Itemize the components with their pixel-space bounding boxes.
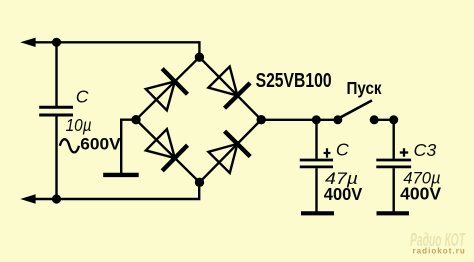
wire: top rail to bridge xyxy=(57,42,200,57)
svg-text:C3: C3 xyxy=(414,140,437,160)
diode D1 (left to top) xyxy=(144,69,188,113)
wire: switch to capacitor C3 xyxy=(374,119,394,121)
polarity + (C2) xyxy=(324,148,331,157)
switch SA1 Пуск xyxy=(333,100,378,124)
node: bridge bottom xyxy=(195,178,204,187)
wire: bottom rail to bridge xyxy=(57,182,200,199)
node: bridge right xyxy=(257,115,266,124)
svg-text:C: C xyxy=(76,87,89,107)
node: capacitor C3 top junction xyxy=(389,115,398,124)
svg-text:400V: 400V xyxy=(324,184,363,204)
svg-text:radiokot.ru: radiokot.ru xyxy=(413,247,466,256)
svg-text:10µ: 10µ xyxy=(66,115,92,135)
wire: bridge right node to switch xyxy=(261,119,338,121)
diode D2 (top to right) xyxy=(206,64,250,108)
bridge rectifier S25VB100 : diamond wires xyxy=(136,57,261,182)
diode D3 (left to bottom) xyxy=(144,127,188,171)
capacitor C2 (C 47µ 400V) xyxy=(300,120,334,214)
svg-text:Пуск: Пуск xyxy=(347,79,382,98)
svg-text:S25VB100: S25VB100 xyxy=(256,70,332,92)
wire: left rail upper (to capacitor C) xyxy=(55,42,57,106)
AC input terminal top (arrow) xyxy=(20,38,53,47)
node: capacitor C2 top junction xyxy=(312,115,321,124)
polarity + (C3) xyxy=(400,148,408,156)
wire: left rail lower xyxy=(55,116,57,199)
capacitor C 10µ (dropper) xyxy=(39,107,73,115)
svg-text:400V: 400V xyxy=(400,183,442,203)
node: bottom-left junction xyxy=(52,194,61,203)
ground (bridge minus terminal) xyxy=(103,120,139,175)
diode D4 (bottom to right) xyxy=(206,131,250,175)
svg-text:600V: 600V xyxy=(80,135,121,153)
node: bridge left xyxy=(131,115,140,124)
svg-text:C: C xyxy=(336,140,349,160)
node: top-left junction xyxy=(52,38,61,47)
node: bridge top xyxy=(195,53,204,62)
AC sine symbol xyxy=(60,139,79,152)
capacitor C3 (470µ 400V) xyxy=(376,120,411,214)
AC input terminal bottom (arrow) xyxy=(20,194,53,203)
